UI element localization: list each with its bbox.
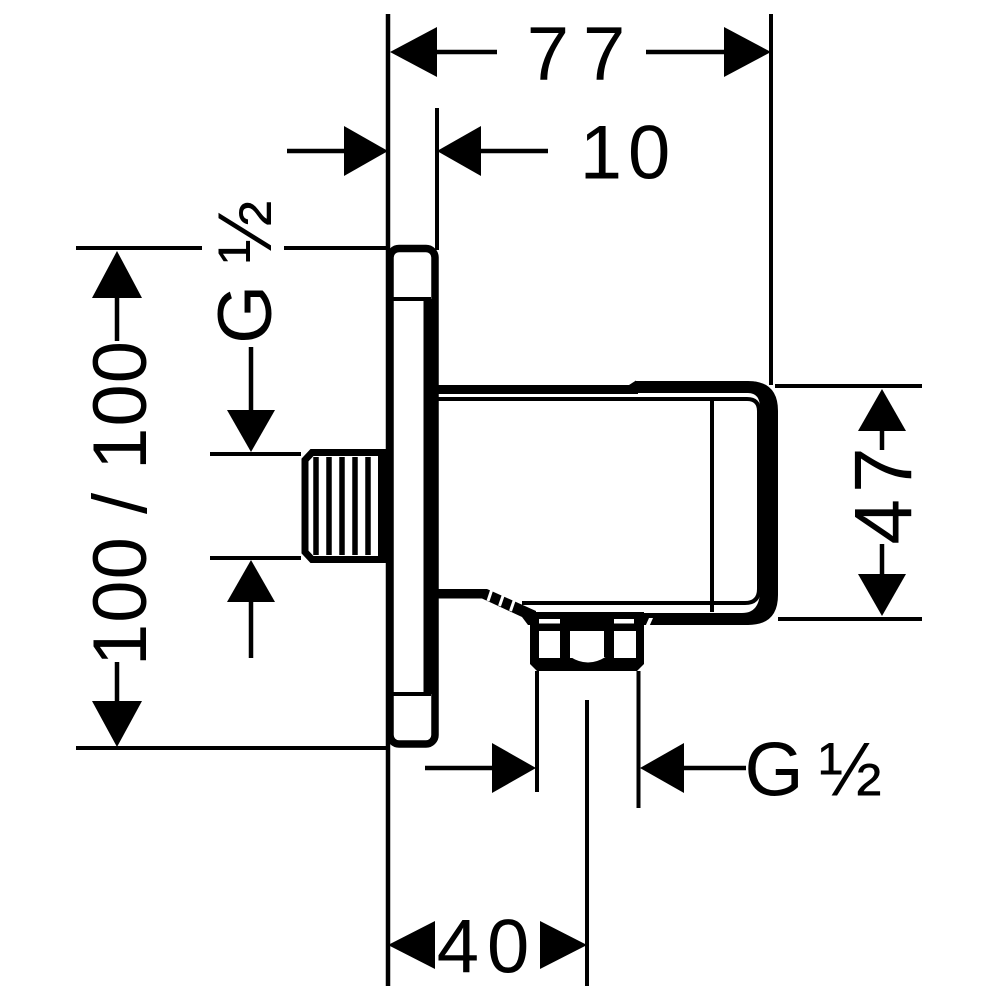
svg-text:10: 10 (580, 111, 677, 196)
svg-text:G ½: G ½ (745, 728, 881, 813)
svg-text:47: 47 (838, 441, 929, 544)
svg-text:G ½: G ½ (203, 200, 288, 344)
svg-text:40: 40 (437, 905, 538, 990)
svg-text:77: 77 (527, 12, 640, 97)
svg-text:100 / 100: 100 / 100 (78, 340, 163, 666)
